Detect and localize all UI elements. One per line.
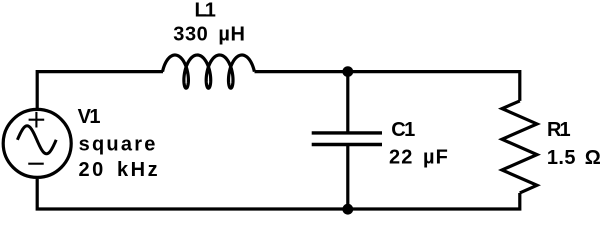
svg-text:22 µF: 22 µF xyxy=(389,146,449,168)
svg-text:1.5 Ω: 1.5 Ω xyxy=(547,147,600,169)
svg-text:R1: R1 xyxy=(547,119,570,141)
svg-text:V1: V1 xyxy=(78,106,101,128)
svg-text:C1: C1 xyxy=(391,119,415,141)
svg-text:20 kHz: 20 kHz xyxy=(79,159,161,181)
svg-text:L1: L1 xyxy=(195,0,216,21)
svg-text:square: square xyxy=(79,133,158,155)
svg-text:330 µH: 330 µH xyxy=(173,23,245,45)
